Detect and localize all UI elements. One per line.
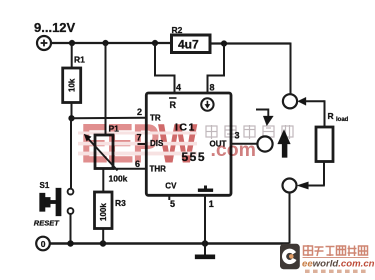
node left of R2 [152, 40, 158, 46]
pin 1 wire [204, 195, 206, 243]
bottom output terminal [283, 179, 297, 193]
node pin1 ground [202, 240, 208, 246]
wire top rail drop to top terminal [290, 43, 292, 95]
tiny slogan marks [305, 270, 366, 273]
resistor R1 [71, 43, 73, 68]
wire top rail right [210, 42, 291, 44]
svg-text:CV: CV [165, 182, 177, 191]
wire OUT pin 3 [231, 143, 258, 145]
EEPW watermark [78, 113, 256, 175]
svg-text:RESET: RESET [34, 219, 60, 228]
svg-text:4u7: 4u7 [178, 37, 199, 51]
svg-text:100k: 100k [109, 174, 128, 184]
arrow into bottom terminal [297, 182, 309, 189]
svg-text:R1: R1 [74, 55, 85, 65]
plus supply terminal [37, 36, 51, 50]
svg-text:R: R [170, 100, 177, 110]
svg-text:9...12V: 9...12V [34, 20, 76, 35]
node above R1 [69, 40, 75, 46]
bold up arrow right of middle terminal [278, 130, 291, 145]
pin 8 supply symbol [201, 98, 213, 110]
pulse arrow above middle terminal [256, 110, 268, 117]
wire DIS stub [138, 143, 147, 145]
middle output terminal [257, 136, 272, 151]
eeworld logo block [280, 244, 375, 273]
svg-text:10k: 10k [68, 78, 77, 92]
svg-text:1: 1 [209, 199, 214, 209]
svg-text:load: load [336, 117, 349, 123]
node R3 bottom [100, 240, 106, 246]
wire THR line [113, 168, 146, 170]
svg-text:4: 4 [176, 83, 181, 93]
svg-text:eeworld.com.cn: eeworld.com.cn [302, 259, 375, 270]
node S1 bottom [67, 240, 73, 246]
P1 wiper arrow [88, 139, 118, 171]
wire TR line to IC pin 2 [72, 117, 147, 119]
chinese title blocks [304, 245, 368, 256]
pin8 branch wire [208, 44, 225, 94]
internal ground tack near pin 1 [204, 186, 207, 190]
wire bottom rail [50, 242, 290, 245]
svg-text:.com: .com [211, 139, 257, 161]
wire P1 to R3 [102, 169, 104, 193]
zero-volt terminal [36, 237, 50, 251]
svg-text:0: 0 [41, 239, 46, 249]
wire node to switch S1 [70, 118, 72, 189]
wire top rail left [51, 42, 172, 44]
ground symbol [204, 244, 206, 256]
svg-text:5: 5 [170, 199, 175, 209]
node right of R2 [221, 41, 227, 47]
potentiometer P1 [105, 43, 107, 135]
svg-text:S1: S1 [40, 181, 50, 190]
node above P1 [103, 40, 109, 46]
svg-text:100k: 100k [99, 203, 108, 221]
resistor R3 [95, 192, 113, 229]
svg-text:R: R [328, 111, 334, 121]
arrow into top terminal [298, 97, 306, 105]
top output terminal [283, 94, 297, 108]
node R1 / TR / S1 [69, 115, 75, 121]
IC IC1 555 timer [146, 93, 231, 195]
svg-text:R3: R3 [115, 198, 126, 208]
gray chinese watermark [206, 125, 293, 139]
pin 5 stub [168, 195, 170, 200]
svg-text:8: 8 [210, 83, 215, 93]
pin4 branch wire [155, 43, 175, 94]
